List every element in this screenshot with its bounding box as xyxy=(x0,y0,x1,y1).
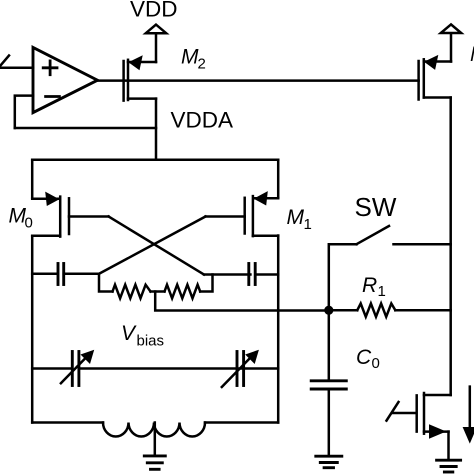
svg-text:VDD: VDD xyxy=(130,0,178,22)
wire tail rail xyxy=(32,159,278,162)
resistor left bias xyxy=(99,274,151,299)
ground (C0) xyxy=(316,456,342,468)
wire Vbias tap xyxy=(155,292,329,311)
svg-text:0: 0 xyxy=(372,355,380,372)
svg-text:C: C xyxy=(356,346,372,369)
wire gate bus xyxy=(98,79,419,82)
capacitor left coupling xyxy=(32,264,98,285)
node junction dot xyxy=(324,306,333,315)
node VDDA (M2 drain) xyxy=(155,99,158,160)
cross-coupling wire (M0 gate to right node) xyxy=(109,217,205,275)
svg-text:VDDA: VDDA xyxy=(171,108,234,133)
svg-text:1: 1 xyxy=(304,216,312,233)
varactor right xyxy=(222,350,259,387)
transistor M3 (top right) xyxy=(419,55,451,100)
svg-text:V: V xyxy=(121,322,137,345)
svg-text:2: 2 xyxy=(198,56,206,73)
svg-text:M: M xyxy=(287,206,305,229)
resistor right bias xyxy=(151,275,213,299)
op-amp U1 xyxy=(33,47,98,112)
transistor M1 xyxy=(206,160,279,236)
switch SW xyxy=(329,226,451,311)
svg-text:0: 0 xyxy=(25,215,33,232)
svg-text:M: M xyxy=(470,43,474,66)
input wire xyxy=(0,67,33,70)
cross-coupling wire (M1 gate to left node) xyxy=(99,217,206,274)
inductor L xyxy=(32,423,278,437)
svg-text:1: 1 xyxy=(378,283,386,300)
VDD symbol (M3) xyxy=(441,24,461,61)
svg-text:R: R xyxy=(362,274,377,297)
transistor M2 xyxy=(124,55,156,100)
resistor R1 xyxy=(329,304,451,317)
output current arrow xyxy=(463,387,474,444)
ground (inductor center tap) xyxy=(144,423,165,470)
VDD symbol (M2) xyxy=(146,25,166,62)
wire left column xyxy=(31,236,34,423)
wire op-amp inverting input xyxy=(15,96,33,128)
svg-text:SW: SW xyxy=(355,192,397,222)
input slash xyxy=(1,56,10,66)
wire feedback from VDDA xyxy=(15,127,156,130)
capacitor right coupling xyxy=(204,264,278,285)
varactor left xyxy=(32,350,278,386)
wire right column xyxy=(277,236,280,423)
svg-text:M: M xyxy=(181,46,199,69)
capacitor C0 xyxy=(311,310,346,455)
svg-text:bias: bias xyxy=(137,333,165,350)
wire right column xyxy=(449,98,452,396)
transistor M4 (bottom right) xyxy=(387,393,451,459)
transistor M0 xyxy=(32,160,108,237)
ground (M4) xyxy=(437,460,461,472)
